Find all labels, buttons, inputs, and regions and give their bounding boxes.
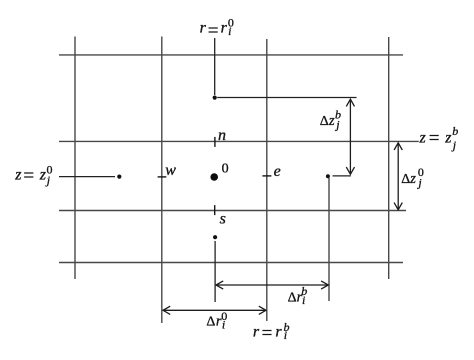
svg-text:b: b — [452, 124, 458, 138]
svg-text:n: n — [218, 127, 226, 144]
svg-text:z: z — [409, 171, 416, 187]
svg-text:=: = — [23, 166, 34, 187]
tick e on line V3 — [262, 175, 271, 177]
wire vertical grid line V5 — [388, 37, 390, 279]
wire center-row left segment (z = z_j^0 row) — [59, 176, 115, 178]
svg-text:z: z — [444, 129, 452, 146]
svg-text:s: s — [220, 211, 226, 228]
wire horizontal grid line H1 — [59, 54, 403, 56]
svg-text:=: = — [429, 128, 440, 149]
svg-text:z: z — [14, 167, 22, 184]
svg-text:w: w — [165, 162, 176, 179]
label dz_j^0 — [401, 165, 424, 189]
wire horizontal grid line H5 — [59, 262, 403, 264]
svg-text:r: r — [221, 20, 228, 37]
svg-text:Δ: Δ — [320, 114, 329, 129]
svg-text:r: r — [200, 20, 207, 37]
wire center-column top segment from label to node n' — [214, 38, 216, 95]
node top dot — [213, 96, 217, 100]
svg-text:Δ: Δ — [206, 314, 215, 329]
tick w on line V2 — [158, 176, 167, 178]
svg-text:i: i — [284, 328, 287, 342]
node center dot 0 — [210, 173, 218, 181]
svg-text:Δ: Δ — [288, 291, 297, 306]
label dz_j^b — [320, 107, 341, 131]
svg-text:Δ: Δ — [401, 172, 410, 187]
wire e-side dot stub to dimension arrow — [333, 175, 351, 177]
wire top dot stub to dimension arrow — [217, 97, 356, 99]
svg-text:i: i — [302, 293, 305, 307]
label z = z_j^b (right axis) — [419, 124, 459, 152]
svg-text:0: 0 — [222, 161, 229, 176]
svg-text:=: = — [262, 323, 273, 344]
dimension arrow dz_j^0 (vertical double arrow) — [394, 143, 402, 210]
wire vertical grid line V1 — [74, 37, 76, 280]
svg-text:e: e — [274, 163, 281, 180]
label r = r_i^b (bottom axis) — [253, 320, 290, 344]
svg-text:i: i — [228, 24, 231, 38]
svg-text:z: z — [419, 129, 427, 146]
label r = r_i^0 (top axis) — [200, 15, 234, 41]
svg-text:z: z — [328, 113, 335, 129]
dimension arrow dr_i^b (horizontal double arrow) — [216, 281, 328, 289]
tick n on line H2 — [214, 137, 216, 147]
svg-text:z: z — [39, 167, 47, 184]
svg-text:r: r — [275, 324, 282, 341]
node s-side dot — [213, 235, 217, 239]
wire center-column bottom segment — [214, 241, 216, 302]
svg-text:=: = — [208, 20, 219, 41]
wire horizontal grid line H4 — [59, 210, 406, 212]
wire vertical grid line V2 — [161, 37, 163, 324]
svg-text:r: r — [253, 324, 260, 341]
wire vertical grid line V4 — [328, 178, 330, 301]
dimension arrow dz_j^b (vertical double arrow) — [346, 99, 354, 174]
label z = z_j^0 (left axis) — [14, 163, 52, 187]
svg-text:i: i — [222, 317, 225, 331]
tick s on line H4 — [214, 205, 216, 215]
label dr_i^0 — [206, 309, 227, 331]
node w-side dot — [117, 175, 121, 179]
wire horizontal grid line H2 (z = z_j^b level) — [59, 140, 419, 142]
dimension arrow dr_i^0 (horizontal double arrow) — [163, 306, 266, 314]
node e-side dot — [326, 174, 330, 178]
wire vertical grid line V3 — [266, 39, 268, 321]
label dr_i^b — [288, 284, 308, 307]
